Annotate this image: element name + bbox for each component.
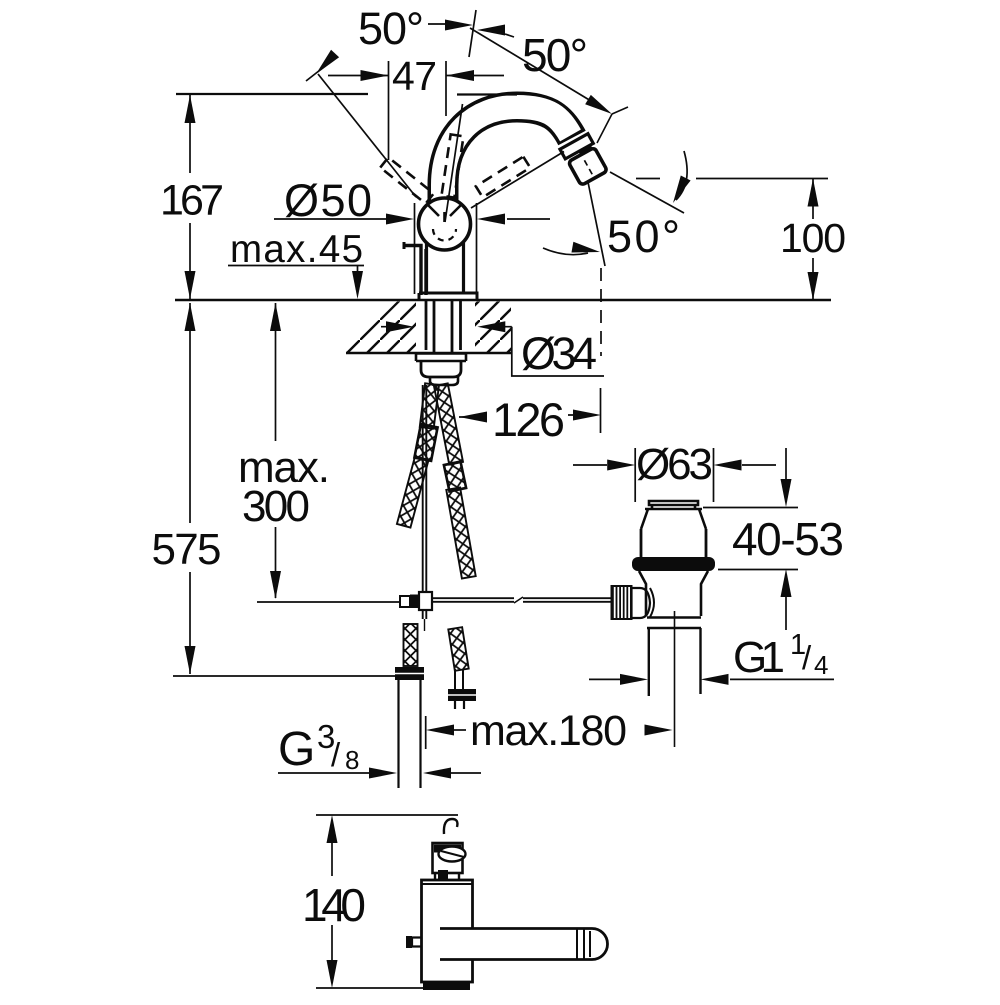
lever pos2 axis line xyxy=(445,10,476,222)
svg-text:140: 140 xyxy=(302,879,366,931)
slash tick at lever1 xyxy=(306,63,329,81)
dim 47 ext lines xyxy=(389,61,447,160)
svg-text:8: 8 xyxy=(345,745,359,775)
hose right nut xyxy=(448,689,476,701)
side body rect xyxy=(422,880,473,982)
side lever curl xyxy=(444,819,458,834)
svg-text:50°: 50° xyxy=(607,211,680,262)
svg-text:Ø34: Ø34 xyxy=(521,328,597,379)
dim O50 ext lines xyxy=(415,203,477,294)
horizontal lever rod xyxy=(432,598,612,602)
pop-up rod vertical xyxy=(423,385,427,594)
wire spout tube outer stroke xyxy=(443,107,572,208)
drain cap top xyxy=(649,501,698,509)
threaded shank below deck xyxy=(426,300,461,352)
drain coupling ring xyxy=(647,618,701,629)
svg-text:167: 167 xyxy=(160,177,224,225)
arc arrow upper right 50deg xyxy=(676,151,687,200)
svg-text:Ø63: Ø63 xyxy=(636,440,713,489)
dim O63 ext lines xyxy=(635,448,713,502)
drain body arc left above port xyxy=(650,588,654,617)
horizontal dashed reference right xyxy=(636,178,828,180)
hose right stub xyxy=(455,701,464,709)
dim 126 arrows xyxy=(459,416,487,418)
hose left ferrule xyxy=(414,424,437,461)
svg-text:47: 47 xyxy=(392,53,437,99)
dim O63 arrows xyxy=(573,464,776,466)
dim G1-1/4 arrows xyxy=(589,678,834,680)
40-53 bottom ref line xyxy=(718,569,798,571)
thin line block corner xyxy=(597,107,628,143)
side view bottom ref line xyxy=(316,987,458,989)
ball inner dashed arc xyxy=(433,229,456,241)
svg-text:100: 100 xyxy=(780,215,846,261)
126 right ext line xyxy=(600,388,602,433)
side lever end ellipse xyxy=(439,847,466,862)
dim 47 lines and arrows xyxy=(328,75,504,77)
dim O34 arrows xyxy=(381,326,512,328)
deck hatch right xyxy=(475,302,511,353)
svg-text:300: 300 xyxy=(242,482,310,531)
svg-text:50°: 50° xyxy=(358,3,424,54)
spray head collar xyxy=(560,134,593,159)
side base dark band xyxy=(423,982,470,990)
side spout capsule xyxy=(440,929,607,960)
hose left nut xyxy=(395,667,424,680)
datum line 575 end xyxy=(173,675,397,677)
svg-text:max.45: max.45 xyxy=(230,228,363,271)
drain body walls xyxy=(641,529,706,558)
hose left segment3 braid xyxy=(404,624,418,666)
deck bottom line xyxy=(346,352,511,355)
svg-text:4: 4 xyxy=(814,650,828,680)
lever pos3 axis line xyxy=(471,152,564,209)
svg-text:max.180: max.180 xyxy=(470,707,627,755)
drain neck taper xyxy=(641,509,706,529)
hose left segment2 braid xyxy=(397,456,429,527)
side lever dark band xyxy=(434,845,461,853)
supply tail pipe left xyxy=(399,680,421,788)
svg-text:/: / xyxy=(802,639,812,676)
side body top inner line xyxy=(422,883,473,885)
side lever block xyxy=(433,843,463,873)
svg-text:G1: G1 xyxy=(733,633,785,682)
40-53 top ref line xyxy=(703,507,798,509)
faucet base flange xyxy=(419,293,477,300)
dim 40-53 top arrow xyxy=(785,448,787,479)
deck top line xyxy=(175,299,831,302)
deck hatch left xyxy=(346,302,416,353)
svg-text:575: 575 xyxy=(152,525,222,574)
side popup pin xyxy=(412,938,422,947)
knurled adjuster knob xyxy=(612,586,632,619)
ball joint circle xyxy=(419,198,471,250)
max45 down arrow xyxy=(357,265,359,275)
spray head block xyxy=(568,147,607,185)
rod break tick xyxy=(514,597,523,603)
dim 100 line xyxy=(812,179,814,301)
clevis black block xyxy=(410,595,419,609)
dim 140 line xyxy=(331,843,333,960)
side view top ref line xyxy=(316,814,458,816)
knob socket xyxy=(632,588,651,618)
vertical dashed centerline below spray xyxy=(600,268,602,356)
mounting nut xyxy=(421,361,461,377)
dim O50 leader and arrows xyxy=(274,218,550,220)
clevis small rect xyxy=(400,596,410,607)
hose right ferrule xyxy=(444,462,466,492)
hose right segment3 braid xyxy=(448,627,468,671)
svg-text:126: 126 xyxy=(492,393,565,446)
faucet body column xyxy=(427,242,464,293)
mounting washer xyxy=(416,354,466,362)
angle arrow near lever1 xyxy=(312,50,339,78)
lever pos2 dashed outline xyxy=(441,134,463,197)
angle dim top arrows at lever2 axis xyxy=(428,23,445,25)
drain lower taper xyxy=(639,571,708,616)
rod stub below clevis xyxy=(423,610,427,619)
dim 575 line xyxy=(189,303,191,674)
dim max180 arrows xyxy=(454,729,466,731)
svg-text:50°: 50° xyxy=(522,29,588,81)
hose left segment1 braid xyxy=(420,383,439,428)
dim 167 line xyxy=(189,95,191,299)
top datum line xyxy=(176,93,517,96)
side spout rings xyxy=(577,929,590,959)
side neck xyxy=(435,873,459,880)
wire spout tube inner white xyxy=(443,107,571,210)
hose right segment2 braid xyxy=(446,487,475,578)
arc arrow lower 50deg xyxy=(543,248,588,255)
ball inner Y detail xyxy=(427,204,462,222)
dim G3/8 line and arrows xyxy=(278,772,481,774)
drain centerline xyxy=(674,611,676,747)
lever pos1 dashed outline xyxy=(380,157,433,203)
clevis slider square xyxy=(419,592,432,610)
spray head dark wedge xyxy=(578,144,593,155)
svg-text:/: / xyxy=(331,736,341,773)
lower collar xyxy=(430,377,458,385)
lever pos1 axis line xyxy=(318,74,416,197)
lever pos3 dashed outline xyxy=(476,157,530,198)
spray vertical-ish line below head xyxy=(588,182,605,266)
datum line max300 end xyxy=(257,601,399,603)
hose right neck xyxy=(455,669,463,689)
drain tailpipe xyxy=(649,628,701,696)
pop-up rod upper L-bend xyxy=(404,246,426,296)
dim max300 line xyxy=(275,303,277,598)
dim 40-53 bottom arrow xyxy=(781,569,792,597)
max180 left ext line xyxy=(425,716,427,749)
O34 step leader xyxy=(512,327,604,376)
svg-text:40-53: 40-53 xyxy=(732,513,844,565)
dim 50deg2 arrow line to spray axis xyxy=(470,28,591,101)
drain flange xyxy=(632,557,715,571)
spray axis extension line lower xyxy=(610,172,684,213)
side neck dark square xyxy=(438,870,448,879)
svg-text:G: G xyxy=(278,723,315,776)
hose right segment1 braid xyxy=(434,383,463,464)
max45 underline xyxy=(228,265,364,267)
